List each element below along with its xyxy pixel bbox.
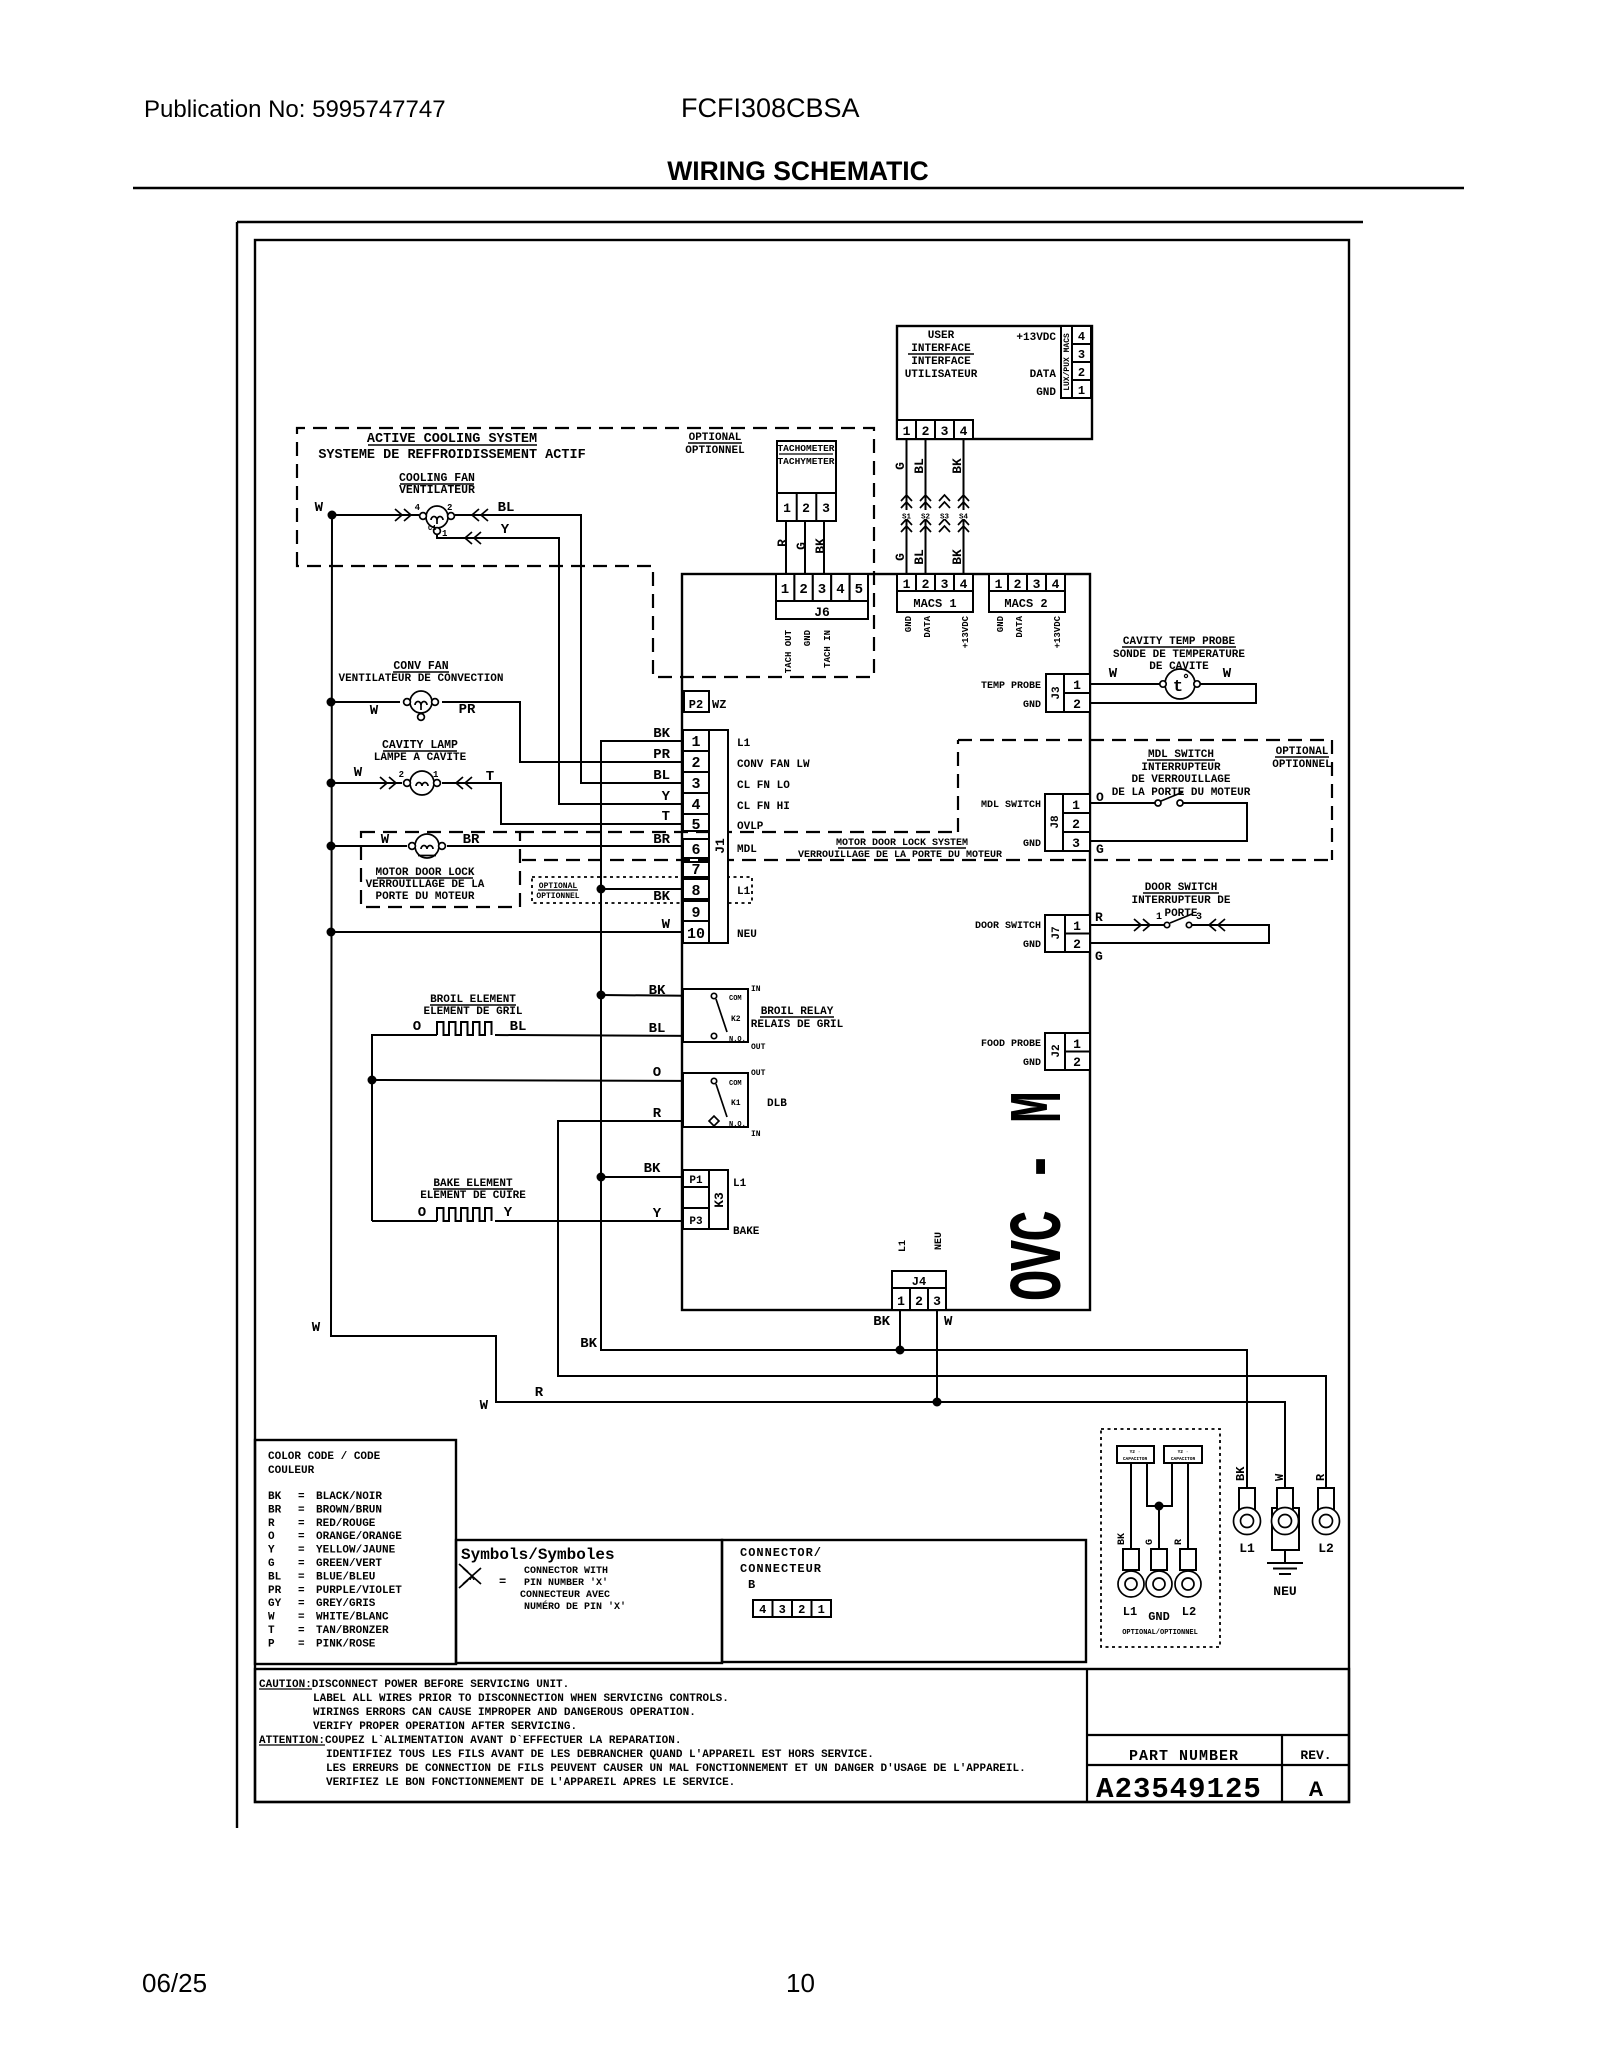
svg-text:=: = [298, 1638, 305, 1650]
svg-text:G: G [893, 462, 908, 470]
svg-text:R: R [268, 1518, 275, 1530]
svg-text:BAKE: BAKE [733, 1226, 760, 1238]
svg-text:TEMP PROBE: TEMP PROBE [981, 681, 1041, 692]
svg-text:PURPLE/VIOLET: PURPLE/VIOLET [316, 1585, 402, 1597]
svg-text:G: G [794, 542, 809, 550]
svg-text:DOOR SWITCH: DOOR SWITCH [1145, 882, 1218, 894]
svg-text:CONNECTEUR: CONNECTEUR [740, 1562, 822, 1576]
svg-text:CAVITY LAMP: CAVITY LAMP [382, 739, 458, 752]
svg-text:T: T [268, 1625, 275, 1637]
svg-text:DATA: DATA [1015, 615, 1025, 637]
svg-text:1: 1 [442, 529, 448, 539]
svg-text:3: 3 [822, 501, 830, 516]
svg-text:3: 3 [818, 582, 826, 598]
svg-text:O: O [413, 1019, 421, 1035]
svg-text:TACH IN: TACH IN [823, 630, 833, 668]
svg-text:=: = [499, 1575, 506, 1589]
svg-text:NEU: NEU [737, 929, 757, 941]
svg-text:OVC - M: OVC - M [1000, 1093, 1083, 1301]
svg-text:BK: BK [1117, 1533, 1128, 1545]
svg-text:S4: S4 [959, 514, 969, 522]
svg-text:J6: J6 [814, 605, 830, 620]
svg-text:LABEL ALL WIRES PRIOR TO DISCO: LABEL ALL WIRES PRIOR TO DISCONNECTION W… [313, 1693, 729, 1705]
svg-text:2: 2 [399, 770, 404, 780]
svg-text:G: G [1095, 949, 1103, 964]
svg-text:J3: J3 [1051, 686, 1063, 700]
svg-text:W: W [315, 500, 324, 516]
svg-text:G: G [1096, 842, 1104, 857]
svg-text:3: 3 [779, 1603, 786, 1617]
svg-text:2: 2 [798, 1603, 805, 1617]
svg-text:TACHOMETER: TACHOMETER [777, 443, 834, 454]
svg-text:=: = [298, 1558, 305, 1570]
svg-text:4: 4 [691, 797, 700, 814]
svg-text:BK: BK [653, 726, 670, 742]
svg-text:MACS 2: MACS 2 [1004, 597, 1047, 611]
svg-text:Y2 ·: Y2 · [1178, 1449, 1189, 1455]
svg-text:BL: BL [653, 768, 670, 784]
svg-text:BK: BK [813, 538, 828, 554]
svg-text:PR: PR [653, 747, 670, 763]
svg-text:BR: BR [463, 832, 480, 848]
svg-text:Symbols/Symboles: Symbols/Symboles [461, 1546, 615, 1564]
svg-text:BL: BL [498, 500, 515, 516]
svg-text:TACHYMETER: TACHYMETER [777, 456, 834, 467]
svg-text:IDENTIFIEZ TOUS LES FILS AVANT: IDENTIFIEZ TOUS LES FILS AVANT DE LES DE… [326, 1749, 874, 1761]
svg-text:BK: BK [649, 983, 666, 999]
svg-text:=: = [298, 1585, 305, 1597]
svg-text:CONV FAN LW: CONV FAN LW [737, 759, 810, 771]
svg-text:J8: J8 [1050, 815, 1062, 829]
svg-text:GND: GND [1023, 700, 1041, 711]
svg-text:T: T [662, 809, 670, 825]
svg-text:PORTE: PORTE [1164, 908, 1197, 920]
svg-text:TACH OUT: TACH OUT [784, 629, 794, 673]
svg-text:O: O [268, 1531, 275, 1543]
svg-text:BLACK/NOIR: BLACK/NOIR [316, 1491, 382, 1503]
svg-text:2: 2 [915, 1294, 923, 1309]
svg-text:DATA: DATA [923, 615, 933, 637]
svg-text:1: 1 [691, 734, 700, 751]
svg-text:=: = [298, 1625, 305, 1637]
svg-text:R: R [535, 1385, 544, 1401]
svg-text:W: W [268, 1612, 275, 1624]
svg-text:K3: K3 [712, 1192, 727, 1208]
svg-text:BL: BL [268, 1571, 282, 1583]
svg-text:A: A [1308, 1778, 1323, 1801]
svg-text:BK: BK [653, 889, 670, 905]
svg-text:4: 4 [960, 577, 968, 592]
svg-text:1: 1 [783, 501, 791, 516]
svg-text:W: W [312, 1320, 321, 1336]
svg-text:UTILISATEUR: UTILISATEUR [905, 369, 978, 381]
svg-text:2: 2 [922, 577, 930, 592]
svg-text:4: 4 [836, 582, 844, 598]
svg-text:=: = [298, 1598, 305, 1610]
svg-text:GND: GND [996, 615, 1006, 632]
svg-text:O: O [653, 1065, 661, 1081]
svg-text:R: R [775, 539, 790, 547]
svg-text:W: W [480, 1398, 489, 1414]
svg-text:IN: IN [751, 1130, 761, 1139]
svg-text:DLB: DLB [767, 1098, 787, 1110]
svg-text:6: 6 [691, 842, 700, 859]
svg-text:BL: BL [510, 1019, 527, 1035]
svg-text:J2: J2 [1051, 1044, 1063, 1057]
svg-text:ELEMENT DE GRIL: ELEMENT DE GRIL [423, 1006, 522, 1018]
svg-text:5: 5 [691, 817, 700, 834]
svg-text:PR: PR [268, 1585, 282, 1597]
svg-text:=: = [298, 1491, 305, 1503]
svg-text:TAN/BRONZER: TAN/BRONZER [316, 1625, 389, 1637]
svg-text:BK: BK [950, 549, 965, 565]
svg-text:P1: P1 [689, 1175, 703, 1187]
svg-text:2: 2 [799, 582, 807, 598]
svg-text:10: 10 [786, 1968, 815, 1998]
svg-text:REV.: REV. [1300, 1748, 1331, 1763]
svg-text:P: P [268, 1638, 275, 1650]
svg-text:2: 2 [802, 501, 810, 516]
svg-text:=: = [298, 1518, 305, 1530]
svg-text:VERROUILLAGE DE LA PORTE DU MO: VERROUILLAGE DE LA PORTE DU MOTEUR [798, 850, 1002, 861]
svg-text:BROIL RELAY: BROIL RELAY [761, 1006, 834, 1018]
svg-text:MDL SWITCH: MDL SWITCH [1148, 749, 1214, 761]
svg-text:L2: L2 [1182, 1605, 1196, 1619]
svg-text:LUX/PUX MACS: LUX/PUX MACS [1063, 333, 1072, 391]
svg-text:OUT: OUT [751, 1043, 766, 1052]
svg-text:MACS 1: MACS 1 [913, 597, 956, 611]
svg-text:OPTIONNEL: OPTIONNEL [1272, 759, 1332, 771]
svg-text:PORTE DU MOTEUR: PORTE DU MOTEUR [375, 891, 474, 903]
svg-text:1: 1 [903, 577, 911, 592]
svg-text:1: 1 [781, 582, 789, 598]
svg-text:ELEMENT DE CUIRE: ELEMENT DE CUIRE [420, 1190, 526, 1202]
svg-text:3: 3 [941, 577, 949, 592]
svg-text:CONV FAN: CONV FAN [393, 660, 448, 673]
svg-text:1: 1 [1078, 384, 1085, 398]
svg-text:J7: J7 [1051, 926, 1063, 939]
svg-text:2: 2 [447, 503, 452, 513]
svg-text:GND: GND [803, 629, 813, 646]
svg-text:WIRING SCHEMATIC: WIRING SCHEMATIC [667, 156, 929, 186]
svg-text:1: 1 [995, 577, 1003, 592]
svg-text:W: W [1109, 666, 1118, 682]
svg-text:1: 1 [903, 424, 911, 439]
svg-text:OPTIONAL: OPTIONAL [1276, 746, 1329, 758]
svg-text:GND: GND [1036, 387, 1056, 399]
svg-text:5: 5 [855, 582, 863, 598]
svg-text:W: W [944, 1314, 953, 1330]
svg-text:BL: BL [649, 1021, 666, 1037]
svg-text:L1: L1 [737, 886, 751, 898]
svg-text:MDL SWITCH: MDL SWITCH [981, 800, 1041, 811]
svg-text:VERROUILLAGE DE LA: VERROUILLAGE DE LA [366, 879, 485, 891]
svg-text:G: G [893, 553, 908, 561]
svg-text:OPTIONAL/OPTIONNEL: OPTIONAL/OPTIONNEL [1122, 1629, 1198, 1637]
svg-text:S3: S3 [940, 514, 950, 522]
svg-text:S1: S1 [902, 514, 912, 522]
svg-text:INTERRUPTEUR: INTERRUPTEUR [1141, 762, 1221, 774]
svg-text:DATA: DATA [1030, 369, 1057, 381]
svg-text:WZ: WZ [712, 698, 726, 712]
svg-text:1: 1 [1073, 919, 1081, 934]
svg-text:OUT: OUT [751, 1069, 766, 1078]
svg-text:WIRINGS ERRORS CAN CAUSE IMPRO: WIRINGS ERRORS CAN CAUSE IMPROPER AND DA… [313, 1707, 696, 1719]
svg-text:Y: Y [501, 522, 510, 538]
svg-text:8: 8 [691, 883, 700, 900]
svg-text:3: 3 [691, 776, 700, 793]
svg-text:L1: L1 [733, 1178, 747, 1190]
svg-text:LES ERREURS DE CONNECTION DE F: LES ERREURS DE CONNECTION DE FILS PEUVEN… [326, 1763, 1026, 1775]
svg-text:OPTIONNEL: OPTIONNEL [536, 892, 579, 901]
svg-text:SYSTEME DE REFFROIDISSEMENT AC: SYSTEME DE REFFROIDISSEMENT ACTIF [318, 448, 585, 463]
svg-text:K2: K2 [731, 1015, 741, 1024]
svg-text:RED/ROUGE: RED/ROUGE [316, 1518, 376, 1530]
svg-text:CONNECTOR/: CONNECTOR/ [740, 1546, 822, 1560]
svg-text:OPTIONNEL: OPTIONNEL [685, 445, 745, 457]
svg-text:VENTILATEUR: VENTILATEUR [399, 484, 475, 497]
svg-text:R: R [1174, 1539, 1185, 1545]
svg-text:4: 4 [960, 424, 968, 439]
svg-text:C1: C1 [428, 525, 436, 533]
svg-text:INTERFACE: INTERFACE [911, 356, 971, 368]
svg-text:P2: P2 [689, 698, 703, 712]
svg-text:BK: BK [268, 1491, 282, 1503]
svg-text:YELLOW/JAUNE: YELLOW/JAUNE [316, 1545, 396, 1557]
svg-text:BK: BK [950, 458, 965, 474]
svg-text:GND: GND [1148, 1610, 1170, 1624]
svg-text:4: 4 [415, 503, 421, 513]
svg-text:3: 3 [1078, 348, 1085, 362]
svg-text:+13VDC: +13VDC [1053, 615, 1063, 648]
svg-text:J4: J4 [912, 1275, 926, 1289]
svg-text:+13VDC: +13VDC [1016, 332, 1056, 344]
svg-text:INTERRUPTEUR DE: INTERRUPTEUR DE [1131, 895, 1230, 907]
svg-text:DE CAVITE: DE CAVITE [1149, 661, 1209, 673]
svg-text:VERIFIEZ LE BON FONCTIONNEMENT: VERIFIEZ LE BON FONCTIONNEMENT DE L'APPA… [326, 1777, 735, 1789]
svg-text:4: 4 [1078, 330, 1085, 344]
svg-text:CL FN LO: CL FN LO [737, 780, 790, 792]
svg-text:W: W [1273, 1473, 1287, 1481]
svg-text:Y: Y [504, 1205, 513, 1221]
svg-text:1: 1 [1072, 798, 1080, 813]
svg-text:1: 1 [433, 770, 439, 780]
svg-text:OVLP: OVLP [737, 821, 764, 833]
svg-text:7: 7 [691, 862, 700, 879]
svg-text:ORANGE/ORANGE: ORANGE/ORANGE [316, 1531, 402, 1543]
svg-text:COM: COM [729, 995, 742, 1003]
svg-text:COLOR CODE / CODE: COLOR CODE / CODE [268, 1451, 381, 1463]
svg-text:10: 10 [687, 926, 705, 943]
svg-text:Y: Y [268, 1545, 275, 1557]
svg-text:GND: GND [1023, 839, 1041, 850]
svg-text:NEU: NEU [1273, 1584, 1296, 1599]
svg-text:=: = [298, 1504, 305, 1516]
svg-text:A23549125: A23549125 [1096, 1773, 1262, 1806]
svg-text:PIN NUMBER 'X': PIN NUMBER 'X' [524, 1577, 608, 1589]
svg-text:4: 4 [759, 1603, 766, 1617]
svg-text:X: X [469, 1573, 475, 1583]
svg-text:COULEUR: COULEUR [268, 1465, 315, 1477]
svg-text:1: 1 [897, 1294, 905, 1309]
svg-text:BL: BL [912, 549, 927, 565]
svg-text:VERIFY PROPER OPERATION AFTER: VERIFY PROPER OPERATION AFTER SERVICING. [313, 1721, 577, 1733]
svg-text:CAPACITOR: CAPACITOR [1171, 1456, 1196, 1462]
svg-text:BR: BR [653, 832, 670, 848]
svg-text:WHITE/BLANC: WHITE/BLANC [316, 1612, 389, 1624]
svg-text:K1: K1 [731, 1099, 741, 1108]
svg-text:R: R [653, 1106, 662, 1122]
svg-text:Y: Y [662, 789, 671, 805]
svg-text:L1: L1 [1123, 1605, 1137, 1619]
svg-text:+13VDC: +13VDC [961, 615, 971, 648]
svg-text:Y2 ·: Y2 · [1130, 1449, 1141, 1455]
svg-text:=: = [298, 1531, 305, 1543]
svg-text:LAMPE A CAVITE: LAMPE A CAVITE [374, 752, 467, 764]
svg-text:SONDE DE TEMPERATURE: SONDE DE TEMPERATURE [1113, 649, 1245, 661]
svg-text:CONNECTEUR AVEC: CONNECTEUR AVEC [520, 1590, 610, 1601]
svg-text:3: 3 [1072, 836, 1080, 851]
svg-text:W: W [354, 765, 363, 781]
svg-text:=: = [298, 1545, 305, 1557]
svg-text:PINK/ROSE: PINK/ROSE [316, 1638, 376, 1650]
svg-text:GY: GY [268, 1598, 282, 1610]
svg-text:2: 2 [1073, 937, 1081, 952]
svg-text:DOOR SWITCH: DOOR SWITCH [975, 921, 1041, 932]
svg-text:IN: IN [751, 985, 761, 994]
svg-text:2: 2 [691, 755, 700, 772]
svg-text:9: 9 [691, 905, 700, 922]
svg-text:RELAIS DE GRIL: RELAIS DE GRIL [751, 1019, 844, 1031]
svg-text:4: 4 [1052, 577, 1060, 592]
svg-text:MDL: MDL [737, 844, 757, 856]
svg-text:N.O.: N.O. [729, 1036, 746, 1044]
svg-text:G: G [268, 1558, 275, 1570]
svg-text:CL FN HI: CL FN HI [737, 801, 790, 813]
svg-text:GND: GND [904, 615, 914, 632]
svg-text:COM: COM [729, 1080, 742, 1088]
svg-text:BROWN/BRUN: BROWN/BRUN [316, 1504, 382, 1516]
svg-text:GREY/GRIS: GREY/GRIS [316, 1598, 376, 1610]
svg-text:NUMÉRO DE PIN 'X': NUMÉRO DE PIN 'X' [524, 1599, 626, 1613]
svg-text:1: 1 [1073, 1037, 1081, 1052]
svg-text:2: 2 [1078, 366, 1085, 380]
svg-text:O: O [418, 1205, 426, 1221]
svg-text:GND: GND [1023, 940, 1041, 951]
svg-text:3: 3 [941, 424, 949, 439]
svg-text:DE LA PORTE DU MOTEUR: DE LA PORTE DU MOTEUR [1112, 787, 1251, 799]
svg-text:BL: BL [912, 458, 927, 474]
svg-text:3: 3 [933, 1294, 941, 1309]
svg-text:OPTIONAL: OPTIONAL [689, 432, 742, 444]
svg-text:PART NUMBER: PART NUMBER [1129, 1748, 1239, 1765]
svg-text:W: W [370, 703, 379, 719]
svg-text:R: R [1095, 910, 1103, 925]
svg-text:USER: USER [928, 330, 955, 342]
svg-text:CONNECTOR WITH: CONNECTOR WITH [524, 1566, 608, 1577]
svg-text:2: 2 [922, 424, 930, 439]
svg-text:FCFI308CBSA: FCFI308CBSA [681, 93, 860, 123]
svg-text:DE VERROUILLAGE: DE VERROUILLAGE [1131, 774, 1230, 786]
svg-text:L1: L1 [737, 738, 751, 750]
svg-text:2: 2 [1073, 1055, 1081, 1070]
svg-text:O: O [1096, 790, 1104, 805]
svg-text:3: 3 [1033, 577, 1041, 592]
svg-text:Publication No: 5995747747: Publication No: 5995747747 [144, 96, 446, 123]
svg-text:2: 2 [1073, 697, 1081, 712]
svg-text:2: 2 [1014, 577, 1022, 592]
svg-text:VENTILATEUR DE CONVECTION: VENTILATEUR DE CONVECTION [338, 673, 503, 685]
svg-text:W: W [1223, 666, 1232, 682]
svg-text:BK: BK [1234, 1466, 1248, 1481]
svg-text:T: T [486, 769, 494, 785]
svg-text:W: W [662, 917, 671, 933]
svg-text:2: 2 [1072, 817, 1080, 832]
svg-text:FOOD PROBE: FOOD PROBE [981, 1039, 1041, 1050]
svg-text:1: 1 [1156, 912, 1162, 923]
svg-text:BK: BK [580, 1336, 597, 1352]
svg-text:06/25: 06/25 [142, 1968, 207, 1998]
svg-text:L1: L1 [898, 1240, 909, 1252]
svg-text:GREEN/VERT: GREEN/VERT [316, 1558, 382, 1570]
svg-text:S2: S2 [921, 514, 931, 522]
svg-text:BK: BK [644, 1161, 661, 1177]
svg-text:R: R [1314, 1473, 1328, 1481]
svg-text:W: W [381, 832, 390, 848]
svg-text:J1: J1 [713, 838, 728, 854]
svg-text:t: t [1173, 678, 1183, 697]
svg-text:INTERFACE: INTERFACE [911, 343, 971, 355]
svg-text:L1: L1 [1239, 1541, 1255, 1556]
svg-text:CAPACITOR: CAPACITOR [1123, 1456, 1148, 1462]
svg-text:BLUE/BLEU: BLUE/BLEU [316, 1571, 375, 1583]
svg-text:BK: BK [873, 1314, 890, 1330]
svg-text:CAVITY TEMP PROBE: CAVITY TEMP PROBE [1123, 636, 1236, 648]
svg-text:MOTOR DOOR LOCK: MOTOR DOOR LOCK [375, 867, 474, 879]
svg-text:Y: Y [653, 1206, 662, 1222]
svg-text:BAKE ELEMENT: BAKE ELEMENT [433, 1178, 513, 1190]
svg-text:1: 1 [1073, 678, 1081, 693]
svg-text:L2: L2 [1318, 1541, 1334, 1556]
svg-text:=: = [298, 1612, 305, 1624]
svg-text:G: G [1145, 1539, 1156, 1545]
svg-text:BR: BR [268, 1504, 282, 1516]
svg-text:PR: PR [459, 702, 476, 718]
svg-text:N.O.: N.O. [729, 1121, 746, 1129]
svg-text:NEU: NEU [934, 1232, 945, 1250]
svg-text:B: B [748, 1578, 755, 1592]
svg-text:P3: P3 [689, 1216, 703, 1228]
svg-text:1: 1 [818, 1603, 825, 1617]
svg-text:GND: GND [1023, 1058, 1041, 1069]
svg-text:BROIL ELEMENT: BROIL ELEMENT [430, 994, 516, 1006]
svg-text:=: = [298, 1571, 305, 1583]
